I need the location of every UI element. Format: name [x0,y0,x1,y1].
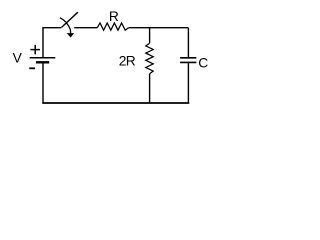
svg-text:V: V [13,51,23,66]
svg-text:R: R [109,9,119,24]
svg-text:C: C [198,56,208,71]
svg-text:R: R [126,54,136,69]
